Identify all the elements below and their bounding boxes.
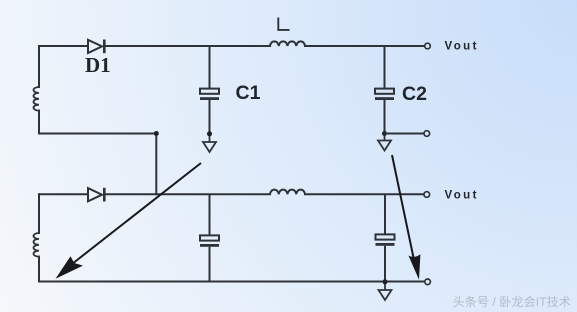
terminal circle (top circuit, lower) <box>424 131 430 137</box>
wire: lower rail right segment <box>305 193 424 195</box>
annotation arrow 2 (from C2 ground to bottom-right terminal) <box>392 155 420 280</box>
svg-text:Vout: Vout <box>445 189 479 201</box>
svg-text:C2: C2 <box>402 83 427 105</box>
ground below C2 <box>378 136 391 151</box>
terminal circle Vout (top) <box>425 43 431 49</box>
node: junction dot bottom rail <box>383 279 388 284</box>
ground at bottom right <box>379 284 392 300</box>
wire: top rail left segment (input corner to diode D1 anode) <box>39 45 88 47</box>
wire: C2 node to lower-right terminal <box>385 133 424 135</box>
diode (lower, unlabeled) <box>88 188 104 202</box>
wire: lower rail left segment <box>39 193 88 195</box>
wire: junction down to lower circuit <box>155 134 157 195</box>
svg-text:头条号 / 卧龙会IT技术: 头条号 / 卧龙会IT技术 <box>453 295 572 309</box>
inductor primary winding (top-left, vertical) <box>38 46 40 87</box>
wire: top rail right segment (L to Vout terminal) <box>305 45 424 47</box>
capacitor C1 <box>200 46 219 132</box>
label L <box>278 18 289 30</box>
node: junction dot below C1 <box>207 131 212 136</box>
inductor primary winding (bottom-left, vertical) <box>38 194 40 233</box>
capacitor (lower right, unlabeled) <box>376 194 395 281</box>
svg-text:Vout: Vout <box>445 41 479 53</box>
svg-text:D1: D1 <box>85 53 111 77</box>
node: junction dot below C2 <box>382 131 387 136</box>
capacitor C2 <box>375 46 394 132</box>
ground below C1 <box>203 136 216 152</box>
inductor (lower, unlabeled) <box>270 190 305 195</box>
wire: top rail middle segment (D1 cathode to inductor L) <box>105 45 271 47</box>
wire: bottom rail <box>39 281 424 283</box>
wire: bottom of top loop to junction <box>39 133 156 135</box>
diode D1 <box>88 40 104 54</box>
svg-text:C1: C1 <box>236 82 261 104</box>
terminal circle Vout (lower) <box>424 192 430 198</box>
node: junction dot at loop corner <box>154 131 159 136</box>
terminal circle (bottom rail, right) <box>425 279 431 285</box>
wire: lower rail middle segment <box>105 193 271 195</box>
capacitor (lower left, unlabeled) <box>200 194 219 281</box>
inductor L (top) <box>270 41 305 46</box>
annotation arrow 1 (from C1 ground to bottom-left) <box>56 163 202 279</box>
